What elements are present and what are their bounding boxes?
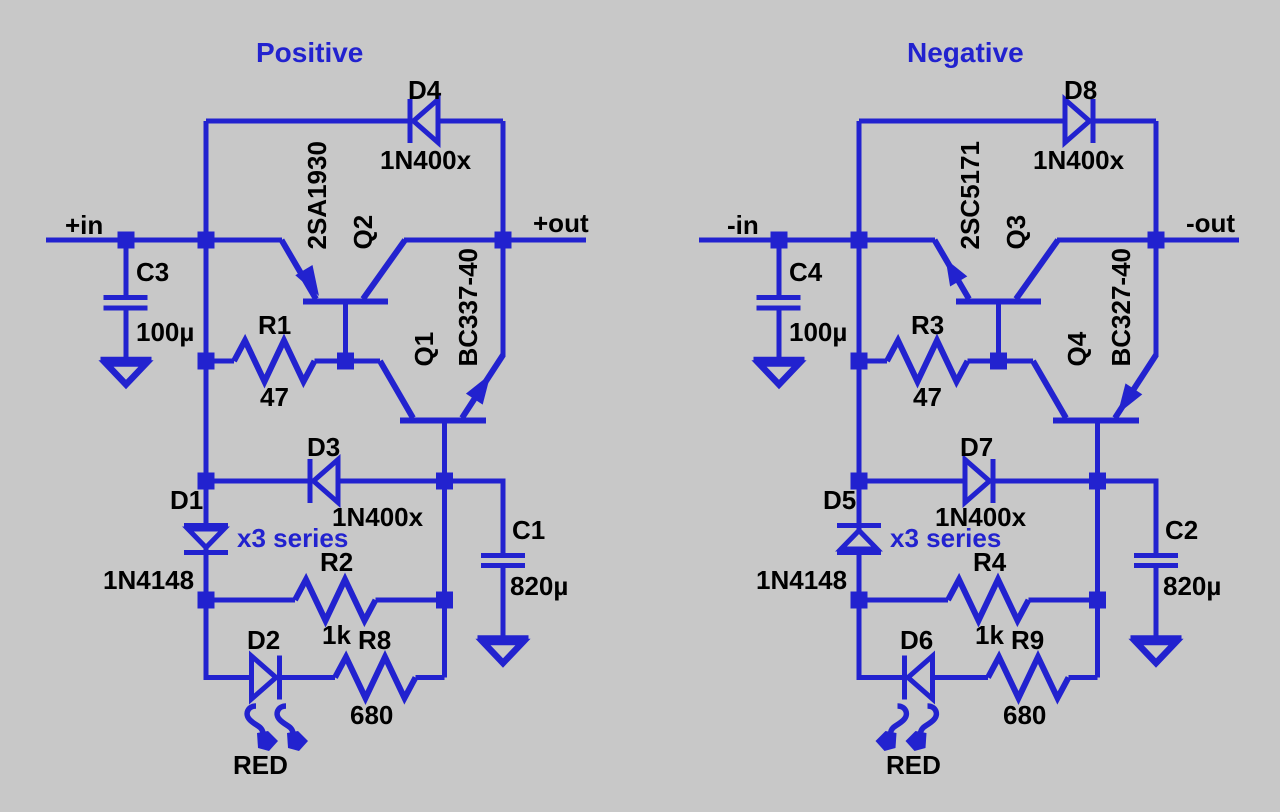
- diode D5 anode line: [837, 550, 881, 555]
- label 1N400x (D8 value): [1033, 145, 1125, 175]
- resistor R8: [335, 657, 416, 698]
- svg-text:R4: R4: [973, 547, 1007, 577]
- wire R4 right stub: [1029, 598, 1098, 603]
- label 100µ (C3 value): [136, 317, 194, 347]
- node left rail / R3 junction: [851, 353, 868, 370]
- wire C4 to ground: [777, 308, 782, 359]
- label RED (D6 colour): [886, 750, 941, 780]
- label BC337-40 (Q1 type): [453, 248, 483, 367]
- wire R3 left stub: [859, 359, 887, 364]
- svg-text:+out: +out: [533, 208, 589, 238]
- wire R1 left stub: [206, 359, 234, 364]
- capacitor C3 top lead: [124, 240, 129, 297]
- label -out: [1186, 208, 1235, 238]
- resistor R2: [295, 580, 376, 621]
- wire mid rail (Q1 base down): [442, 421, 447, 678]
- svg-text:D3: D3: [307, 432, 340, 462]
- label 1N4148 (D1 value): [103, 565, 194, 595]
- wire mid rail (Q4 base down): [1095, 421, 1100, 678]
- svg-text:D8: D8: [1064, 75, 1097, 105]
- diode D5 cathode bar: [837, 523, 881, 528]
- label 1N400x (D3 value): [332, 502, 424, 532]
- wire R2 right stub: [376, 598, 445, 603]
- svg-text:C1: C1: [512, 515, 545, 545]
- svg-text:100µ: 100µ: [136, 317, 194, 347]
- svg-text:47: 47: [913, 382, 942, 412]
- label 820µ (C1 value): [510, 571, 568, 601]
- wire -out rail top: [1154, 121, 1159, 240]
- svg-text:Q2: Q2: [348, 215, 378, 250]
- svg-text:1k: 1k: [322, 620, 351, 650]
- wire +out rail to Q1 emitter: [501, 240, 506, 357]
- diode D1: [188, 529, 224, 548]
- label BC327-40 (Q4 type): [1106, 248, 1136, 367]
- wire top bus (D4 feedback rail): [206, 119, 503, 124]
- diode D2 (LED): [252, 656, 280, 700]
- svg-text:Q4: Q4: [1062, 331, 1092, 366]
- node R1 / Q2 base junction: [337, 353, 354, 370]
- label 1N400x (D7 value): [935, 502, 1027, 532]
- resistor R3: [887, 341, 968, 382]
- label Q3: [1001, 215, 1031, 250]
- svg-text:Positive: Positive: [256, 37, 363, 68]
- wire C1 branch: [445, 481, 504, 554]
- label Q4: [1062, 331, 1092, 366]
- ground (C1): [478, 638, 529, 663]
- svg-text:RED: RED: [886, 750, 941, 780]
- wire Q3 base to R3 node: [996, 302, 1001, 361]
- svg-text:C4: C4: [789, 257, 823, 287]
- node left rail / R4 / D5 junction: [851, 592, 868, 609]
- label C2: [1165, 515, 1198, 545]
- transistor Q1 emitter arrow: [466, 374, 491, 405]
- wire top bus (D8 feedback rail): [859, 119, 1156, 124]
- transistor Q4 base bar: [1053, 418, 1139, 424]
- node -out junction: [1148, 232, 1165, 249]
- svg-text:R2: R2: [320, 547, 353, 577]
- label D5: [823, 485, 856, 515]
- node R3 / Q3 base junction: [990, 353, 1007, 370]
- svg-text:2SC5171: 2SC5171: [955, 141, 985, 249]
- capacitor C3: [104, 298, 148, 309]
- transistor Q2 collector: [363, 240, 405, 299]
- capacitor C2: [1134, 556, 1178, 566]
- label 2SA1930 (Q2 type): [302, 141, 332, 249]
- diode D8: [1065, 99, 1093, 143]
- resistor R4: [948, 580, 1029, 621]
- label +in: [65, 210, 103, 240]
- capacitor C1: [481, 556, 525, 566]
- diode D7: [965, 459, 993, 503]
- LED D2 light squiggle 1: [247, 706, 278, 751]
- wire R1 right stub: [315, 359, 346, 364]
- label D2: [247, 625, 280, 655]
- diode D4: [410, 99, 438, 143]
- node +in / left rail junction: [198, 232, 215, 249]
- label R3: [911, 310, 944, 340]
- transistor Q1 base bar: [400, 418, 486, 424]
- svg-text:C3: C3: [136, 257, 169, 287]
- node D3 / Q1 base / C1 junction: [436, 473, 453, 490]
- transistor Q3 emitter arrow: [946, 259, 968, 287]
- wire R4 left stub: [859, 598, 948, 603]
- resistor R9: [988, 657, 1069, 698]
- transistor Q4 emitter arrow: [1118, 383, 1143, 414]
- transistor Q2 base bar: [303, 299, 388, 305]
- svg-text:R1: R1: [258, 310, 291, 340]
- label 680 (R9 value): [1003, 700, 1046, 730]
- capacitor C4: [757, 298, 801, 309]
- node -in / left rail junction (neg): [851, 232, 868, 249]
- svg-text:Negative: Negative: [907, 37, 1024, 68]
- label R8: [358, 625, 391, 655]
- label 100µ (C4 value): [789, 317, 847, 347]
- wire left rail vertical (neg): [859, 121, 988, 678]
- title Positive: [256, 37, 363, 68]
- diode D6 (LED): [905, 656, 933, 700]
- label -in: [727, 210, 759, 240]
- label 820µ (C2 value): [1163, 571, 1221, 601]
- transistor Q1 collector diag: [380, 361, 413, 418]
- ground (C4): [754, 360, 805, 385]
- svg-text:D7: D7: [960, 432, 993, 462]
- diode D1 cathode bar: [184, 550, 228, 555]
- svg-text:Q3: Q3: [1001, 215, 1031, 250]
- node left rail / D7 / D5 junction: [851, 473, 868, 490]
- label 47 (R1 value): [260, 382, 289, 412]
- svg-text:820µ: 820µ: [1163, 571, 1221, 601]
- wire R2 left stub: [206, 598, 295, 603]
- svg-text:Q1: Q1: [409, 332, 439, 367]
- wire collector to +out: [404, 238, 586, 243]
- svg-text:820µ: 820µ: [510, 571, 568, 601]
- svg-text:1N400x: 1N400x: [380, 145, 472, 175]
- LED D6 light squiggle 2: [876, 706, 907, 751]
- node D7 / Q4 base / C2 junction: [1089, 473, 1106, 490]
- transistor Q3 collector: [1016, 240, 1058, 299]
- wire +out rail top: [501, 121, 506, 240]
- label D3: [307, 432, 340, 462]
- label D7: [960, 432, 993, 462]
- label x3 series (neg): [890, 523, 1001, 553]
- label R9: [1011, 625, 1044, 655]
- svg-text:1k: 1k: [975, 620, 1004, 650]
- wire Q2 base to R1 node: [343, 302, 348, 361]
- transistor Q4 collector diag: [1033, 361, 1066, 418]
- svg-text:RED: RED: [233, 750, 288, 780]
- svg-text:100µ: 100µ: [789, 317, 847, 347]
- svg-text:-in: -in: [727, 210, 759, 240]
- wire R1 node to Q1 base diag: [346, 359, 381, 364]
- svg-text:1N400x: 1N400x: [1033, 145, 1125, 175]
- diode D3: [310, 459, 338, 503]
- node left rail / R1 junction: [198, 353, 215, 370]
- node left rail / D3 / D1 junction: [198, 473, 215, 490]
- wire bottom loop right: [416, 675, 445, 680]
- label C4: [789, 257, 823, 287]
- LED D2 light squiggle 2: [277, 706, 308, 751]
- wire C1 to ground: [501, 567, 506, 638]
- label 2SC5171 (Q3 type): [955, 141, 985, 249]
- label D8: [1064, 75, 1097, 105]
- svg-text:1N4148: 1N4148: [756, 565, 847, 595]
- svg-text:BC327-40: BC327-40: [1106, 248, 1136, 367]
- svg-text:D4: D4: [408, 75, 442, 105]
- label C1: [512, 515, 545, 545]
- ground (C2): [1131, 638, 1182, 663]
- wire C3 to ground: [124, 308, 129, 359]
- wire bottom loop right (neg): [1069, 675, 1098, 680]
- wire R3 right stub: [968, 359, 999, 364]
- wire -out rail to Q4 emitter: [1154, 240, 1159, 357]
- transistor Q4 emitter: [1115, 355, 1156, 418]
- svg-text:1N4148: 1N4148: [103, 565, 194, 595]
- label x3 series: [237, 523, 348, 553]
- wire -in input: [699, 238, 935, 243]
- label R1: [258, 310, 291, 340]
- svg-text:BC337-40: BC337-40: [453, 248, 483, 367]
- wire R3 node to Q4 base diag: [999, 359, 1034, 364]
- label 47 (R3 value): [913, 382, 942, 412]
- svg-text:C2: C2: [1165, 515, 1198, 545]
- label D1: [170, 485, 203, 515]
- svg-text:680: 680: [1003, 700, 1046, 730]
- node +out junction: [495, 232, 512, 249]
- node R4 / mid rail junction: [1089, 592, 1106, 609]
- label 680 (R8 value): [350, 700, 393, 730]
- LED D6 light squiggle 1: [906, 706, 937, 751]
- capacitor C4 top lead: [777, 240, 782, 297]
- wire left rail vertical: [206, 121, 335, 678]
- label Q1: [409, 332, 439, 367]
- svg-text:47: 47: [260, 382, 289, 412]
- svg-text:D2: D2: [247, 625, 280, 655]
- wire +in input: [46, 238, 282, 243]
- transistor Q3 base bar: [956, 299, 1041, 305]
- ground (C3): [101, 360, 152, 385]
- label +out: [533, 208, 589, 238]
- svg-text:R3: R3: [911, 310, 944, 340]
- label 1k (R2 value): [322, 620, 351, 650]
- resistor R1: [234, 341, 315, 382]
- wire C2 branch: [1098, 481, 1157, 554]
- diode D1 anode line: [184, 523, 228, 528]
- wire collector to -out: [1057, 238, 1239, 243]
- node left rail / R2 / D1 junction: [198, 592, 215, 609]
- svg-text:D6: D6: [900, 625, 933, 655]
- wire D3 bus: [206, 479, 445, 484]
- wire C2 to ground: [1154, 567, 1159, 638]
- svg-text:R8: R8: [358, 625, 391, 655]
- transistor Q1 emitter: [462, 355, 503, 418]
- label Q2: [348, 215, 378, 250]
- svg-text:+in: +in: [65, 210, 103, 240]
- label RED (D2 colour): [233, 750, 288, 780]
- transistor Q3 emitter: [935, 240, 970, 299]
- label R2: [320, 547, 353, 577]
- svg-text:-out: -out: [1186, 208, 1235, 238]
- node R2 / mid rail junction: [436, 592, 453, 609]
- svg-text:R9: R9: [1011, 625, 1044, 655]
- svg-text:2SA1930: 2SA1930: [302, 141, 332, 249]
- wire D7 bus: [859, 479, 1098, 484]
- label 1k (R4 value): [975, 620, 1004, 650]
- node -in / C4 junction: [771, 232, 788, 249]
- label C3: [136, 257, 169, 287]
- transistor Q2 emitter: [282, 240, 317, 299]
- label D4: [408, 75, 442, 105]
- node +in / C3 junction: [118, 232, 135, 249]
- label 1N400x (D4 value): [380, 145, 472, 175]
- label D6: [900, 625, 933, 655]
- label R4: [973, 547, 1007, 577]
- label 1N4148 (D5 value): [756, 565, 847, 595]
- title Negative: [907, 37, 1024, 68]
- svg-text:680: 680: [350, 700, 393, 730]
- transistor Q2 emitter arrow: [295, 265, 319, 296]
- diode D5: [841, 531, 877, 550]
